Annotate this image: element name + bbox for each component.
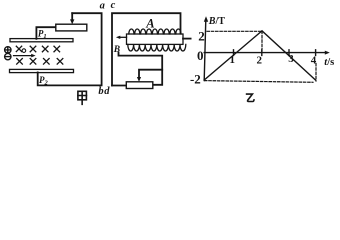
svg-text:P1: P1	[38, 29, 47, 41]
svg-text:-2: -2	[190, 72, 201, 87]
svg-text:3: 3	[288, 53, 294, 65]
svg-text:B/T: B/T	[208, 16, 225, 27]
svg-text:2: 2	[198, 28, 205, 43]
svg-text:4: 4	[311, 54, 317, 66]
svg-text:t/s: t/s	[324, 57, 334, 68]
svg-text:2: 2	[257, 54, 263, 66]
svg-text:c: c	[111, 0, 116, 11]
svg-text:P2: P2	[39, 75, 49, 87]
svg-text:d: d	[104, 86, 110, 97]
svg-text:a: a	[100, 1, 105, 12]
svg-text:b: b	[98, 86, 103, 97]
svg-text:1: 1	[229, 54, 235, 66]
svg-text:B: B	[113, 45, 120, 55]
svg-text:A: A	[145, 17, 154, 31]
svg-text:0: 0	[197, 48, 204, 63]
